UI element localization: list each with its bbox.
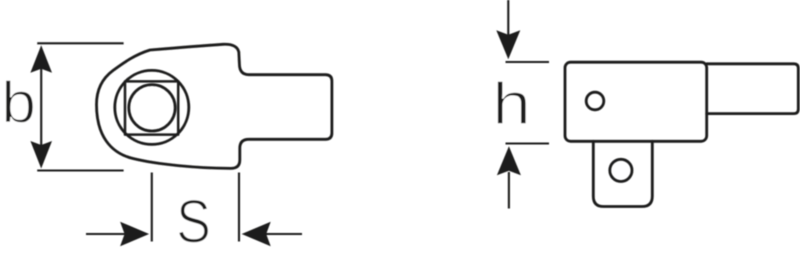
svg-text:S: S (176, 187, 211, 255)
svg-text:h: h (492, 71, 531, 137)
svg-text:b: b (1, 70, 36, 135)
